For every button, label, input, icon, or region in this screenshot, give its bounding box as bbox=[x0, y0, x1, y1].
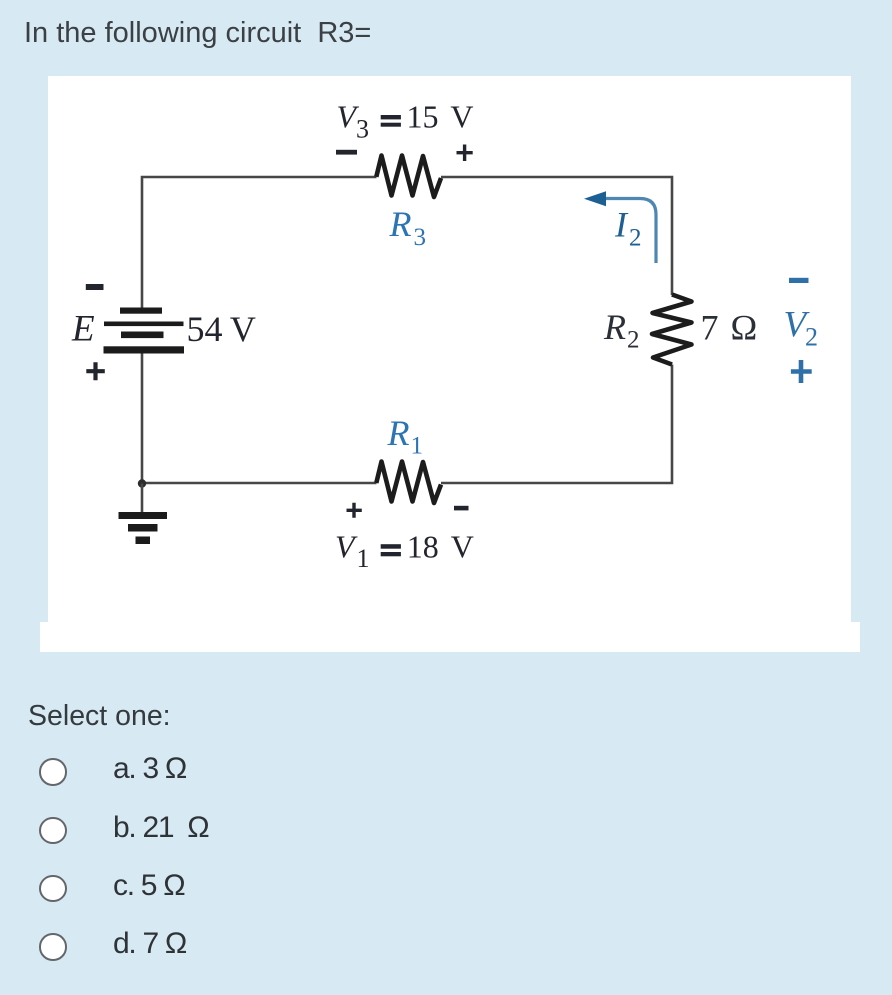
svg-text:I: I bbox=[614, 205, 629, 245]
svg-text:2: 2 bbox=[629, 225, 642, 252]
label V1 = 18 V bbox=[335, 529, 474, 574]
minus sign below R1 right bbox=[454, 506, 469, 511]
svg-text:R: R bbox=[603, 307, 626, 347]
minus sign above V2 bbox=[789, 278, 809, 283]
wire bottom-left: from R1 to junction bbox=[142, 482, 377, 485]
wire top-right: from R3 to corner, down to R2 top bbox=[441, 177, 672, 295]
wire right-bottom: from R2 bottom to corner, across to R1 bbox=[441, 365, 672, 484]
svg-text:18 V: 18 V bbox=[407, 529, 474, 565]
label 54 V bbox=[187, 309, 256, 349]
plus sign right of R3 bbox=[457, 145, 473, 162]
plus sign below battery bbox=[86, 362, 105, 380]
label R2 bbox=[603, 307, 640, 354]
resistor R1 zigzag bbox=[376, 462, 441, 504]
svg-text:1: 1 bbox=[411, 433, 424, 460]
svg-text:E: E bbox=[71, 309, 95, 350]
wire battery bottom to junction bbox=[141, 353, 144, 483]
plus sign below R1 left bbox=[347, 503, 362, 518]
svg-text:3: 3 bbox=[356, 114, 369, 143]
battery E plates bbox=[104, 308, 185, 354]
I2 current arrow bbox=[584, 191, 656, 263]
svg-text:R: R bbox=[389, 204, 412, 244]
label V2 bbox=[784, 305, 819, 352]
wire ground stem bbox=[141, 484, 144, 514]
label E bbox=[71, 309, 95, 350]
svg-text:R: R bbox=[387, 413, 410, 453]
svg-text:54 V: 54 V bbox=[187, 309, 256, 349]
svg-text:1: 1 bbox=[357, 544, 370, 573]
svg-text:15 V: 15 V bbox=[407, 98, 474, 134]
resistor R3 zigzag bbox=[376, 156, 441, 198]
svg-text:2: 2 bbox=[627, 327, 640, 354]
plus sign below V2 bbox=[791, 360, 812, 383]
label I2 bbox=[614, 205, 642, 252]
svg-text:7 Ω: 7 Ω bbox=[701, 308, 758, 348]
node junction dot bbox=[138, 479, 146, 487]
wire left+top: from battery top up and across to R3 bbox=[142, 177, 377, 308]
minus sign left of R3 bbox=[336, 150, 357, 155]
ground bbox=[119, 512, 168, 544]
label V3 = 15 V bbox=[337, 98, 474, 143]
label R1 bbox=[387, 413, 424, 460]
resistor R2 zigzag (vertical) bbox=[652, 295, 692, 365]
svg-text:3: 3 bbox=[414, 224, 427, 251]
svg-text:2: 2 bbox=[805, 323, 818, 352]
svg-text:V: V bbox=[335, 529, 358, 565]
label 7 ohm bbox=[701, 308, 758, 348]
minus sign above battery bbox=[86, 284, 104, 290]
label R3 bbox=[389, 204, 427, 251]
